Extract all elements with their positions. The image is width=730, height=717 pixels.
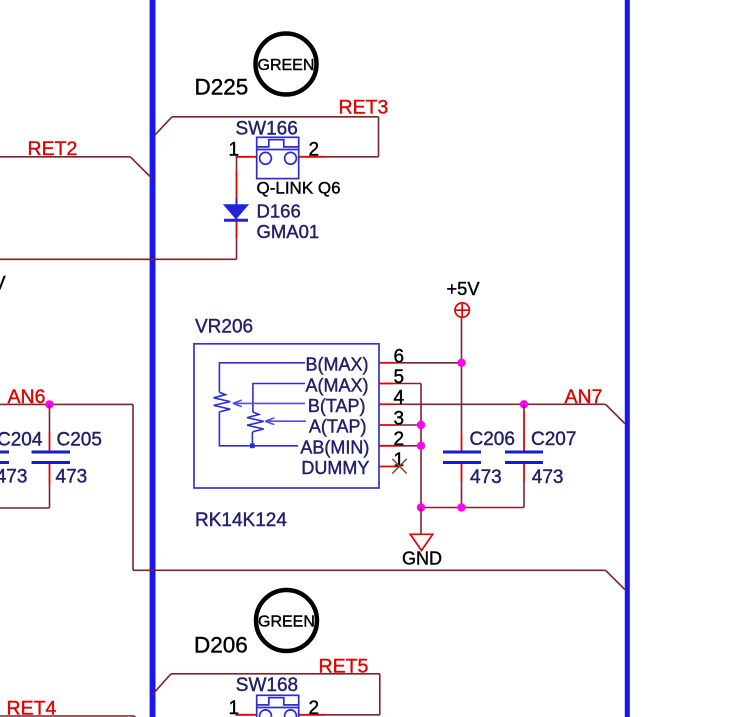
svg-text:RET3: RET3	[339, 97, 389, 119]
A(TAP) tap arrow	[265, 418, 306, 425]
svg-text:RK14K124: RK14K124	[195, 510, 287, 531]
svg-text:SW168: SW168	[236, 675, 298, 696]
svg-text:2: 2	[309, 140, 320, 161]
svg-text:C206: C206	[470, 429, 515, 450]
wire RET2 bus entry diagonal	[130, 157, 151, 178]
wire pin5 vertical down to bottom rail	[420, 384, 422, 508]
svg-text:GREEN: GREEN	[258, 57, 315, 74]
diode D166 cathode bar	[224, 219, 248, 222]
wire RET4 horizontal	[0, 715, 134, 717]
ground symbol triangle	[410, 534, 432, 550]
svg-text:GMA01: GMA01	[257, 221, 320, 242]
capacitor C204 plates (clipped)	[0, 451, 9, 454]
svg-text:RET4: RET4	[7, 698, 57, 717]
wire SW168 pin2 net	[325, 714, 380, 716]
capacitor C205 plates	[32, 451, 71, 454]
wire RET5 bus entry diagonal	[153, 674, 172, 695]
LED D225 circle	[256, 34, 317, 95]
pin 1 stub of SW168	[236, 714, 260, 716]
LED D206 circle	[256, 590, 317, 651]
wire RET3 vertical to SW166 pin 2	[378, 117, 380, 157]
svg-text:VR206: VR206	[195, 317, 253, 338]
capacitor C207 plates	[505, 451, 543, 454]
svg-text:2: 2	[394, 429, 405, 450]
svg-text:473: 473	[470, 467, 502, 488]
svg-text:D166: D166	[257, 201, 301, 222]
svg-text:473: 473	[532, 467, 564, 488]
pin 1 wire of VR206	[379, 466, 401, 468]
svg-text:GND: GND	[402, 549, 442, 569]
junction dot pin3	[417, 421, 425, 429]
svg-text:AB(MIN): AB(MIN)	[300, 437, 369, 457]
svg-text:GREEN: GREEN	[258, 614, 315, 631]
capacitor C206 leads	[461, 434, 463, 451]
junction dot AN6 / C205	[45, 400, 53, 408]
wire AN6 long horizontal to bus	[133, 569, 606, 571]
junction dot bottom rail at C206	[457, 503, 465, 511]
svg-text:2: 2	[309, 698, 320, 717]
wire SW166 pin1 down to diode (upper dark part)	[236, 157, 238, 171]
svg-text:A(MAX): A(MAX)	[306, 375, 369, 395]
svg-text:D206: D206	[194, 633, 248, 658]
switch SW168 right contact circle	[285, 710, 297, 717]
wire diode cathode to RET wire (lower dark part)	[236, 238, 238, 259]
svg-text:473: 473	[0, 467, 27, 488]
wire +5V down to C206	[461, 318, 463, 434]
diode D166 top lead stub	[236, 198, 238, 205]
wire from D166 to left edge	[0, 258, 237, 260]
svg-text:4: 4	[394, 388, 405, 409]
svg-text:A(TAP): A(TAP)	[309, 417, 367, 437]
bus: right vertical blue bus	[625, 0, 630, 717]
diode D166 triangle	[224, 205, 248, 219]
capacitor C205 leads	[49, 404, 51, 432]
junction dot bottom rail left	[417, 503, 425, 511]
svg-text:DUMMY: DUMMY	[301, 458, 369, 478]
wire RET4 bus entry diagonal	[134, 716, 138, 717]
power symbol +5V circle with cross	[454, 303, 470, 318]
wire RET3 horizontal	[172, 116, 379, 118]
diode D166 pin leads (red vertical)	[236, 171, 238, 238]
switch SW166 left contact circle	[260, 152, 272, 164]
svg-text:3: 3	[394, 408, 405, 429]
svg-text:V: V	[0, 274, 6, 295]
svg-text:SW166: SW166	[236, 119, 298, 140]
wire RET5 horizontal	[171, 673, 380, 675]
capacitor C206 plates	[443, 451, 481, 454]
svg-text:D225: D225	[195, 75, 249, 100]
VR206 internal lead bottom to AB(MIN)	[219, 412, 298, 446]
pin 2 stub of SW166	[298, 156, 325, 158]
switch SW166 body	[257, 137, 299, 178]
pin 5 wire of VR206	[379, 383, 393, 385]
wire AN6 vertical	[132, 404, 134, 570]
svg-text:B(TAP): B(TAP)	[308, 396, 366, 416]
VR206 internal lead to A(MAX)	[253, 384, 305, 413]
svg-text:AN7: AN7	[565, 386, 603, 408]
wire C205 bottom to left edge	[0, 507, 50, 509]
wire capacitor bottom rail	[421, 507, 524, 509]
wire AN6 bus entry diagonal	[606, 570, 625, 589]
svg-text:473: 473	[56, 467, 88, 488]
pin 2 wire of VR206	[379, 445, 397, 447]
wire RET2 horizontal	[0, 156, 130, 158]
switch SW166 right contact circle	[285, 152, 297, 164]
B(TAP) tap arrow	[233, 400, 305, 407]
pin 2 stub of SW168	[298, 714, 325, 716]
wire AN7 bus entry diagonal	[606, 404, 625, 423]
svg-text:1: 1	[229, 140, 240, 161]
svg-text:6: 6	[394, 346, 405, 367]
switch SW168 left contact circle	[260, 710, 272, 717]
no-connect X on pin 1	[392, 459, 406, 474]
svg-text:C204: C204	[0, 430, 43, 451]
svg-text:B(MAX): B(MAX)	[306, 355, 369, 375]
svg-text:C207: C207	[531, 429, 576, 450]
resistor element (left zigzag)	[214, 392, 231, 412]
resistor element (right zigzag)	[247, 412, 264, 432]
wire SW166 pin2 net to RET3 corner	[325, 156, 379, 158]
switch SW168 plunger notch	[257, 698, 299, 708]
wire RET3 bus entry diagonal	[155, 117, 173, 136]
svg-text:1: 1	[229, 698, 240, 717]
wire RET5 vertical to SW168 pin 2	[379, 674, 381, 715]
svg-text:+5V: +5V	[447, 278, 481, 299]
capacitor C207 leads	[523, 404, 525, 411]
svg-text:Q-LINK Q6: Q-LINK Q6	[257, 179, 341, 198]
VR206 internal lead to B(MAX)	[219, 363, 305, 393]
wire pin4 to AN7	[421, 403, 606, 405]
switch SW168 body	[257, 695, 299, 717]
wire GND stub	[420, 508, 422, 534]
wire AN6 horizontal	[0, 403, 133, 405]
pin 3 wire of VR206	[379, 424, 396, 426]
bus: left vertical blue bus	[150, 0, 156, 717]
pin 4 wire of VR206	[379, 403, 394, 405]
potentiometer VR206 body	[194, 344, 379, 488]
junction dot pin4 / C207	[520, 400, 528, 408]
pin 1 stub of SW166	[236, 156, 260, 158]
junction dot +5V / pin6	[457, 359, 465, 367]
pin 6 wire of VR206	[379, 362, 394, 364]
right resistor bottom lead	[251, 432, 253, 446]
switch SW166 plunger notch	[257, 140, 299, 150]
svg-text:5: 5	[394, 367, 405, 388]
junction dot pin2	[417, 442, 425, 450]
junction square at resistor bottom	[250, 443, 255, 448]
svg-text:C205: C205	[57, 430, 102, 451]
